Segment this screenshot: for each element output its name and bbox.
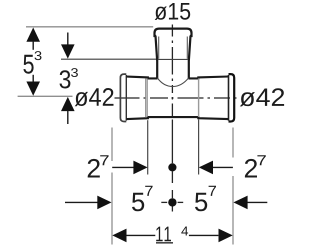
dimension 5.7: left stem xyxy=(65,201,98,203)
dimension 5.3: upper arrow xyxy=(26,28,40,42)
label 3 (3.3 dim) xyxy=(60,70,71,88)
tee fitting: top outline left socket + step + body xyxy=(126,77,157,79)
label 5 (5.7 right) xyxy=(195,193,207,212)
extension line right fitting end (upper) xyxy=(232,128,234,158)
tee fitting: left bead (press end) xyxy=(120,74,126,121)
dimension 5.3: lower arrow xyxy=(26,82,40,96)
superscript 3 of 3.3 xyxy=(71,68,78,77)
extension line left fitting end (lower) xyxy=(111,173,113,245)
tee fitting: bottom outline xyxy=(126,117,228,119)
tee fitting: left bead inner edge xyxy=(125,75,127,121)
underline below 11 xyxy=(156,242,173,243)
dimension 2.7 right: arrow xyxy=(199,161,213,175)
branch socket inner wall left xyxy=(158,37,160,59)
dimension 2.7 left: stem xyxy=(112,166,134,168)
label ø42 left xyxy=(75,88,114,106)
dimension 2.7 left: arrow xyxy=(133,161,147,175)
superscript 7 of 2.7 right xyxy=(257,155,265,165)
extension line left fitting end (upper) xyxy=(111,128,113,162)
tee fitting: right bead inner edge xyxy=(228,75,230,121)
centerline vertical dash-dot xyxy=(171,25,173,212)
extension line left at centerline level xyxy=(18,95,73,97)
label 2 (2.7 right) xyxy=(245,159,257,178)
branch socket right wall xyxy=(189,36,191,79)
label ø42 right xyxy=(240,88,284,106)
label 11 (11.4 dim) xyxy=(156,227,171,242)
dimension 5.7: right arrow xyxy=(233,196,247,210)
extension line branch socket stop (3.3 dim) xyxy=(61,58,157,60)
dimension 11.4: right stem xyxy=(189,234,219,236)
dimension 5.7: right stem xyxy=(248,201,268,203)
dimension 2.7 right: stem xyxy=(213,166,233,168)
superscript 3 of 5.3 xyxy=(35,51,42,60)
dimension 5.3: stem lower xyxy=(32,75,34,83)
center mark dash right of lower node dot xyxy=(178,201,184,203)
saddle arc where branch meets run pipe xyxy=(157,78,188,87)
branch socket left wall xyxy=(156,36,158,79)
tee fitting: right bead (press end) xyxy=(229,74,235,121)
dimension 5.3: stem upper xyxy=(32,41,34,50)
label 5 (5.7 left) xyxy=(132,193,144,212)
extension line right fitting end (lower) xyxy=(232,176,234,245)
superscript 7 of 5.7 left xyxy=(145,186,152,196)
dimension 3.3: down arrow xyxy=(61,44,75,58)
superscript 4 of 11.4 xyxy=(181,227,188,236)
superscript 7 of 5.7 right xyxy=(209,186,216,196)
node dot on 5.7 dimension line xyxy=(168,198,176,206)
dimension 11.4: right arrow xyxy=(219,229,233,243)
label 2 (2.7 left) xyxy=(88,159,100,178)
superscript 7 of 2.7 left xyxy=(100,155,108,165)
dimension 11.4: left arrow xyxy=(112,229,126,243)
tee fitting: left socket stop line inside (a) xyxy=(145,78,147,117)
node dot on 2.7 dimension line xyxy=(168,163,176,171)
extension line left socket stop below fitting xyxy=(147,120,149,174)
tee fitting: left socket stop line inside (b) xyxy=(146,78,148,117)
branch bead (top press end) xyxy=(155,29,192,36)
branch socket stop line xyxy=(158,58,188,60)
dimension 11.4: left stem xyxy=(126,234,155,236)
dimension 3.3: upper stem xyxy=(67,33,69,46)
tee fitting: top outline body + step + right socket xyxy=(189,77,229,79)
branch socket inner wall right xyxy=(186,37,188,59)
extension line top of branch bead xyxy=(26,26,153,28)
label ø15 branch diameter xyxy=(155,3,191,20)
tee fitting: right socket stop line inside xyxy=(198,78,200,117)
center mark dash left of lower node dot xyxy=(161,201,167,203)
dimension 3.3: up arrow xyxy=(61,97,75,111)
dimension 3.3: lower stem xyxy=(67,111,69,125)
centerline horizontal dash-dot xyxy=(115,97,237,99)
label 5 (5.3 dim) xyxy=(23,55,33,74)
extension line right socket stop below fitting xyxy=(198,120,200,175)
dimension 5.7: left arrow xyxy=(97,196,111,210)
